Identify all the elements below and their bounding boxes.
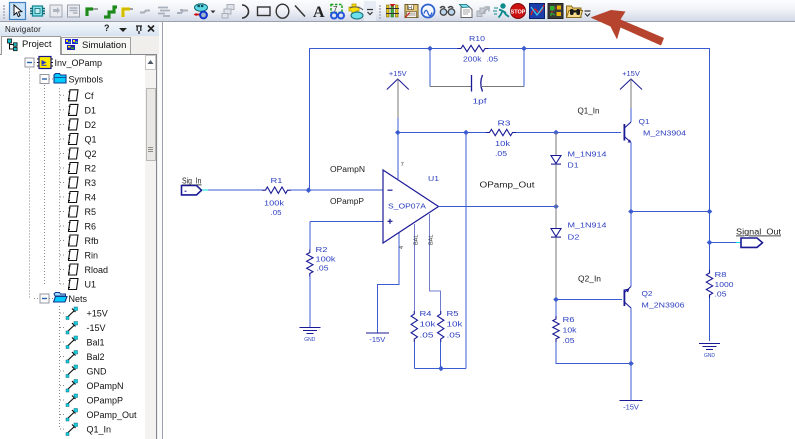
annotation red arrow — [591, 10, 665, 46]
wire Q1_In to D1 — [555, 133, 557, 156]
wire D1 to mid node — [555, 165, 557, 207]
svg-text:.05: .05 — [317, 264, 329, 273]
svg-text:7: 7 — [401, 162, 404, 168]
toolbar place part — [30, 6, 45, 16]
power +15V Q1 collector supply — [620, 79, 642, 90]
svg-text:OPampN: OPampN — [330, 165, 365, 174]
navigator panel — [0, 22, 163, 439]
Project tab (active) — [1, 36, 61, 55]
junction OPampN node — [306, 187, 312, 193]
svg-text:.05: .05 — [420, 331, 434, 340]
svg-text:R8: R8 — [715, 270, 727, 279]
resistor R6 10k — [553, 316, 559, 342]
junction R5 bottom — [438, 366, 444, 372]
toolbar select tool (active) — [10, 3, 26, 20]
transistor Q1 2N3904 — [624, 122, 631, 143]
svg-text:4: 4 — [399, 246, 405, 249]
wire emitter rail — [631, 211, 710, 213]
wire Q2 emitter up — [630, 212, 632, 287]
wire to R2 — [309, 221, 311, 250]
junction Signal_Out node — [707, 240, 713, 246]
resistor R8 1000 — [706, 270, 712, 298]
toolbar grip — [3, 5, 5, 19]
wire Q2 collector down — [630, 308, 632, 364]
toolbar bus tool — [104, 7, 117, 17]
svg-text:M_2N3906: M_2N3906 — [642, 301, 685, 310]
Simulation tab (inactive) — [61, 37, 131, 54]
wire feedback left vertical + top left segment — [310, 49, 458, 191]
capacitor C1 1pf plates — [471, 75, 473, 92]
wire to -15V — [630, 364, 632, 401]
svg-text:Q2: Q2 — [642, 289, 653, 298]
toolbar save icon — [405, 5, 418, 18]
junction +15V / R3 node — [395, 130, 401, 136]
resistor R1 100k — [262, 187, 291, 193]
red annotation arrow — [0, 0, 795, 60]
toolbar icon (disabled) — [50, 5, 62, 17]
junction feedback left tap — [427, 46, 433, 52]
ground GND under R8 — [699, 344, 720, 350]
wire Q2_In node to R6 — [555, 300, 557, 317]
toolbar scope icon — [530, 4, 545, 19]
power -15V Q2 collector supply — [620, 400, 643, 402]
svg-text:Q1_In: Q1_In — [578, 107, 600, 116]
wire Q2_In to Q2 base — [556, 299, 622, 301]
wire op-amp output — [439, 206, 557, 208]
toolbar glasses icon — [440, 7, 455, 16]
toolbar overflow 2 — [585, 11, 591, 16]
toolbar overflow — [364, 1, 376, 21]
wire R4 bottom — [413, 342, 415, 369]
title bar — [0, 22, 159, 36]
toolbar icon (disabled) — [177, 10, 188, 13]
wire cap left vertical — [429, 49, 431, 87]
svg-text:1pf: 1pf — [473, 97, 488, 106]
junction emitter rail left — [628, 209, 634, 215]
scrollbar — [145, 55, 156, 439]
svg-text:D2: D2 — [568, 233, 580, 242]
diode D1 1N914 — [551, 156, 561, 165]
resistor R5 10k — [438, 311, 444, 342]
svg-text:R3: R3 — [498, 119, 511, 128]
junction -15V node — [628, 361, 634, 367]
svg-text:R4: R4 — [420, 309, 432, 318]
toolbar probe icon — [386, 4, 399, 17]
toolbar wire tool — [87, 9, 93, 16]
svg-text:Q1: Q1 — [639, 117, 650, 126]
toolbar icon (disabled) — [68, 5, 80, 17]
wire cyan stub at Sig_In — [202, 189, 208, 191]
svg-text:100k: 100k — [264, 199, 284, 208]
wire R2 to ground — [309, 277, 311, 328]
wire to Signal_Out port — [710, 242, 737, 244]
svg-text:OPampP: OPampP — [330, 197, 364, 206]
tree root Inv_OPamp — [29, 69, 31, 299]
toolbar icon — [349, 4, 363, 19]
tree contents — [0, 54, 156, 439]
resistor R10 200k — [458, 45, 489, 51]
svg-text:10k: 10k — [420, 320, 436, 329]
svg-text:10k: 10k — [447, 320, 463, 329]
svg-text:U1: U1 — [428, 174, 439, 183]
junction feedback right tap — [521, 46, 527, 52]
svg-text:1000: 1000 — [715, 280, 734, 289]
transistor Q2 2N3906 — [624, 287, 631, 309]
svg-text:-15V: -15V — [369, 335, 385, 344]
toolbar arc tool — [242, 5, 249, 18]
wire R1 to op-amp inverting input — [291, 189, 383, 191]
op-amp U1 S_OP07A triangle — [383, 170, 439, 243]
junction diode mid node — [553, 204, 559, 210]
wire R5 bottom — [440, 342, 442, 369]
ground GND under R2 — [299, 328, 320, 334]
wire right rail to R8 — [709, 212, 711, 271]
wire op-amp V- pin to -15V — [377, 233, 399, 333]
toolbar grip 2 — [379, 5, 381, 19]
wire D2 to Q2_In node — [555, 238, 557, 300]
svg-text:GND: GND — [304, 337, 315, 343]
wire balance vertical — [465, 133, 467, 369]
svg-text:BAL: BAL — [429, 235, 435, 245]
svg-text:R5: R5 — [447, 309, 459, 318]
toolbar icon (disabled) — [158, 8, 170, 17]
svg-text:.05: .05 — [563, 336, 575, 345]
toolbar run icon — [493, 4, 509, 17]
svg-text:.05: .05 — [271, 208, 282, 217]
svg-text:R2: R2 — [316, 245, 328, 254]
power -15V op-amp supply — [366, 332, 389, 334]
wire top right segment + right rail upper — [489, 49, 710, 212]
resistor R3 10k — [486, 129, 516, 135]
toolbar sine icon — [422, 5, 435, 18]
toolbar rectangle tool — [258, 7, 271, 16]
wire op-amp non-inverting input — [310, 220, 383, 222]
tree folder Symbols — [44, 85, 46, 284]
svg-text:10k: 10k — [563, 326, 577, 335]
tree box — [0, 54, 157, 439]
wire Sig_In to R1 — [208, 189, 262, 191]
diode D2 1N914 — [551, 229, 561, 238]
port Sig_In — [182, 186, 202, 195]
wire mid node to D2 — [555, 207, 557, 229]
junction Q2_In node — [553, 297, 559, 303]
svg-text:OPamp_Out: OPamp_Out — [480, 181, 536, 190]
svg-text:-15V: -15V — [623, 403, 639, 412]
svg-text:BAL: BAL — [414, 235, 420, 245]
wire R3 to Q1 base — [516, 132, 621, 134]
toolbar line tool — [295, 6, 305, 17]
svg-text:D1: D1 — [568, 161, 579, 170]
junction Q1_In node top — [553, 130, 559, 136]
junction R3 left / balance node — [463, 130, 469, 136]
toolbar ellipse tool — [276, 4, 289, 18]
toolbar icon — [331, 5, 344, 19]
wire R4 R5 bottom rail — [414, 368, 466, 370]
toolbar icon (disabled) — [477, 7, 489, 17]
svg-text:100k: 100k — [316, 255, 336, 264]
svg-text:+15V: +15V — [389, 69, 407, 78]
svg-text:Signal_Out: Signal_Out — [736, 228, 782, 237]
tree folder Nets — [40, 294, 49, 303]
wire cap right vertical — [523, 49, 525, 87]
svg-text:R6: R6 — [563, 315, 575, 324]
cap left lead — [430, 86, 471, 88]
tree net items — [59, 306, 61, 429]
svg-text:M_1N914: M_1N914 — [568, 221, 607, 230]
power +15V op-amp supply — [387, 79, 409, 90]
power pin stub +15V Q1 — [630, 79, 632, 108]
wire BAL1 pin to R4 — [413, 224, 415, 311]
svg-text:.05: .05 — [715, 290, 727, 299]
resistor R4 10k — [411, 311, 417, 342]
port Signal_Out — [741, 238, 763, 247]
svg-text:S_OP07A: S_OP07A — [388, 202, 426, 211]
toolbar layout icon — [548, 4, 563, 19]
toolbar stop icon — [511, 4, 526, 19]
tab row — [0, 36, 159, 54]
power pin stub +15V — [397, 79, 399, 118]
tree symbol items — [59, 88, 61, 284]
svg-text:10k: 10k — [495, 139, 510, 148]
wire Q1 emitter down — [630, 143, 632, 212]
cap right lead — [481, 86, 524, 88]
wire R8 to ground — [709, 298, 711, 341]
toolbar find icon — [567, 6, 583, 18]
svg-text:+15V: +15V — [622, 69, 640, 78]
svg-text:M_2N3904: M_2N3904 — [643, 129, 686, 138]
wire +15V to op-amp V+ pin — [397, 118, 399, 179]
wire BAL2 pin jog to R5 — [430, 214, 441, 311]
svg-text:GND: GND — [704, 353, 715, 359]
toolbar net tool — [194, 4, 208, 19]
wire +15V node to R3 — [398, 132, 486, 134]
toolbar icon (disabled) — [222, 5, 234, 19]
toolbar icons svg — [0, 0, 795, 22]
svg-text:R1: R1 — [271, 176, 283, 185]
toolbar strip — [0, 0, 795, 22]
junction emitter rail right — [707, 209, 713, 215]
toolbar yellow wire tool — [123, 9, 130, 17]
toolbar netlist icon — [460, 5, 473, 18]
resistor R2 100k — [307, 250, 313, 277]
toolbar icon (disabled) — [140, 11, 150, 13]
svg-text:.05: .05 — [495, 149, 507, 158]
svg-text:Sig_In: Sig_In — [182, 177, 202, 186]
svg-text:Q2_In: Q2_In — [578, 275, 601, 284]
svg-text:M_1N914: M_1N914 — [568, 150, 607, 159]
wire +15V to Q1 collector — [630, 108, 632, 122]
svg-text:.05: .05 — [447, 331, 461, 340]
wire R6 bottom to -15V rail — [556, 342, 631, 364]
wire cyan stub at Signal_Out — [736, 242, 741, 244]
